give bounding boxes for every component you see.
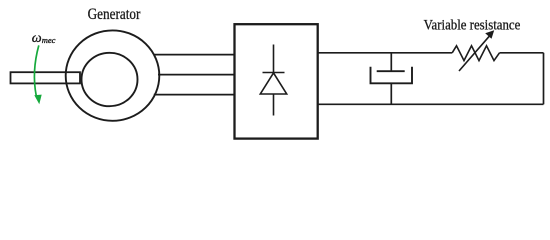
- diode D1 triangle: [260, 73, 286, 94]
- shaft (input rotating shaft rectangle): [11, 72, 81, 83]
- diode D1 cathode lead: [273, 45, 275, 73]
- generator G outer circle: [66, 30, 160, 120]
- capacitor C1 top lead: [390, 53, 392, 71]
- rectifier box U1: [235, 24, 318, 138]
- wire stator phase A: [154, 54, 234, 56]
- diode D1 anode lead: [273, 94, 275, 116]
- resistor R1 wiper arrow: [459, 35, 491, 71]
- wire DC negative rail: [318, 103, 544, 105]
- capacitor C1 top plate: [377, 70, 405, 72]
- wire stator phase C: [154, 94, 235, 96]
- capacitor C1 bottom lead: [390, 83, 392, 104]
- svg-text:Generator: Generator: [88, 6, 141, 23]
- capacitor C1 bottom plate bracket: [371, 67, 413, 84]
- svg-text:Variable resistance: Variable resistance: [424, 17, 521, 33]
- green rotation arrow: [34, 45, 38, 95]
- diode D1 cathode bar: [263, 72, 285, 74]
- generator G inner circle: [82, 53, 138, 106]
- wire DC positive rail: [318, 52, 453, 54]
- resistor R1 zigzag: [452, 46, 499, 61]
- wire right edge: [543, 53, 545, 105]
- svg-text:ωmec: ωmec: [32, 31, 56, 46]
- wire after resistor: [500, 52, 544, 54]
- wire stator phase B: [158, 74, 235, 76]
